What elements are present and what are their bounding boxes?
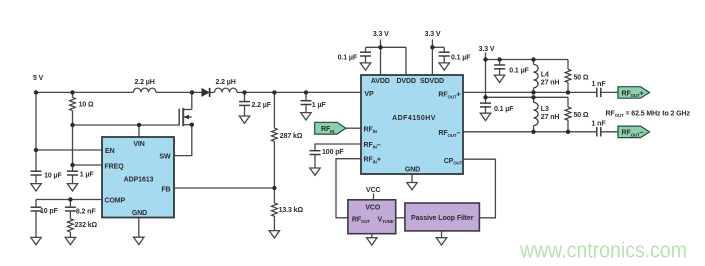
svg-text:2.2 µH: 2.2 µH [135, 79, 155, 86]
svg-text:EN: EN [105, 148, 115, 155]
svg-text:10 Ω: 10 Ω [79, 102, 94, 109]
svg-text:VIN: VIN [133, 141, 144, 148]
svg-text:3.3 V: 3.3 V [373, 31, 389, 38]
svg-text:ADP1613: ADP1613 [124, 177, 154, 184]
svg-text:L4: L4 [541, 72, 549, 79]
svg-text:VP: VP [364, 91, 374, 98]
svg-text:3.3 V: 3.3 V [425, 31, 441, 38]
svg-text:0.1 µF: 0.1 µF [451, 54, 471, 61]
svg-text:50 Ω: 50 Ω [574, 74, 589, 81]
svg-text:2.2 µF: 2.2 µF [252, 102, 272, 109]
svg-text:RFIN–: RFIN– [364, 142, 381, 150]
svg-text:DVDD: DVDD [396, 78, 415, 85]
svg-text:SW: SW [159, 154, 171, 161]
svg-text:AVDD: AVDD [371, 78, 390, 85]
svg-text:RFOUT = 62.5 MHz to 2 GHz: RFOUT = 62.5 MHz to 2 GHz [606, 110, 691, 118]
svg-text:0.1 µF: 0.1 µF [494, 106, 514, 113]
svg-text:COMP: COMP [105, 197, 126, 204]
svg-text:1 nF: 1 nF [592, 81, 607, 88]
svg-text:www.cntronics.com: www.cntronics.com [519, 238, 687, 263]
svg-text:SDVDD: SDVDD [420, 78, 444, 85]
svg-text:0.1 µF: 0.1 µF [338, 54, 358, 61]
svg-text:ADF4150HV: ADF4150HV [392, 115, 436, 122]
svg-text:2.2 µH: 2.2 µH [216, 79, 236, 86]
svg-text:10 µF: 10 µF [44, 173, 62, 180]
svg-text:1 nF: 1 nF [592, 120, 607, 127]
svg-text:VCC: VCC [366, 187, 381, 194]
svg-text:FB: FB [161, 186, 170, 193]
svg-text:27 nH: 27 nH [541, 80, 560, 87]
svg-text:13.3 kΩ: 13.3 kΩ [279, 207, 304, 214]
svg-text:287 kΩ: 287 kΩ [280, 133, 303, 140]
svg-text:1 µF: 1 µF [312, 102, 327, 109]
svg-text:GND: GND [132, 210, 147, 217]
svg-text:Passive Loop Filter: Passive Loop Filter [411, 215, 474, 222]
svg-text:10 pF: 10 pF [40, 208, 59, 215]
svg-text:232 kΩ: 232 kΩ [75, 222, 98, 229]
svg-text:FREQ: FREQ [105, 163, 125, 170]
svg-text:L3: L3 [541, 106, 549, 113]
svg-text:VCO: VCO [365, 205, 381, 212]
svg-text:3.3 V: 3.3 V [479, 46, 495, 53]
svg-text:RFIN+: RFIN+ [364, 157, 381, 165]
svg-text:0.1 µF: 0.1 µF [509, 68, 529, 75]
svg-text:50 Ω: 50 Ω [574, 112, 589, 119]
svg-text:GND: GND [405, 166, 420, 173]
svg-text:8.2 nF: 8.2 nF [76, 209, 96, 216]
svg-text:5 V: 5 V [33, 75, 44, 82]
svg-text:100 pF: 100 pF [322, 149, 344, 156]
svg-text:1 µF: 1 µF [80, 172, 95, 179]
svg-text:27 nH: 27 nH [541, 114, 560, 121]
